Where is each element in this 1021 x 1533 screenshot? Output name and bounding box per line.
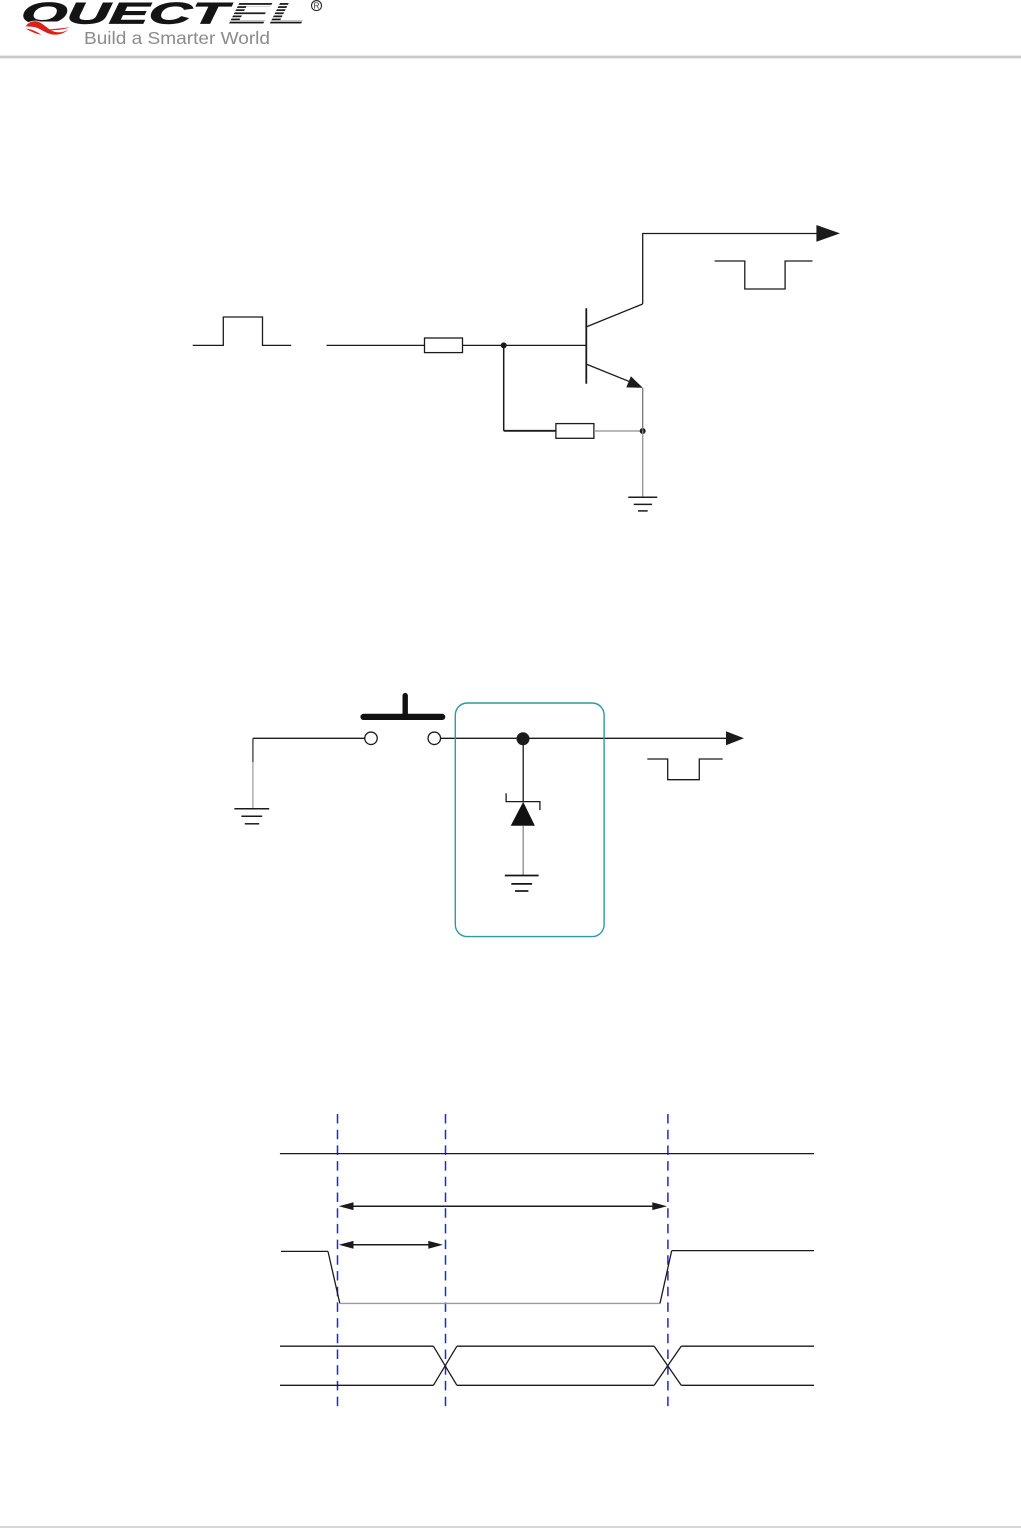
switch S1 left contact [365,732,378,745]
wire left horizontal [253,737,365,739]
wire left vertical [252,738,254,762]
svg-text:EL: EL [227,0,308,30]
zener D1 triangle [511,802,535,826]
dashed guide 2 [445,1114,447,1410]
input pulse waveform [193,317,292,345]
collector wire up and right [643,234,817,305]
arrow to PWRKEY 2 [726,731,744,745]
node emitter junction [640,428,646,434]
svg-text:Build a Smarter World: Build a Smarter World [84,28,270,48]
logo red swoosh [26,21,70,35]
arrow to PWRKEY [816,225,840,242]
transistor Q1 emitter arrowhead [626,376,643,388]
bus bottom line [280,1384,814,1386]
bus crossover 1 [433,1346,457,1385]
emitter wire down [642,388,644,431]
node TVS junction [517,732,530,745]
svg-text:R: R [314,2,320,11]
dashed guide 1 [337,1114,339,1410]
ground circuit 2 box [505,876,539,892]
logo registered mark [312,1,322,11]
TVS module box [455,703,604,937]
PWRKEY waveform high right [672,1250,814,1252]
bus crossover 2 [654,1346,681,1385]
ground stem zener [522,826,524,875]
PWRKEY waveform fall [328,1251,340,1303]
output pulse waveform [715,261,813,289]
long measure arrow [339,1202,667,1210]
VBAT line [280,1153,814,1155]
wire to R2 [504,430,556,432]
resistor R2 [556,424,594,439]
output pulse waveform 2 [647,759,722,780]
PWRKEY waveform rise [660,1251,672,1304]
switch S1 button bar [364,714,443,720]
footer rule [0,1526,1021,1528]
transistor Q1 collector [587,304,643,327]
ground circuit 1 [628,497,657,511]
switch S1 stem [403,696,408,714]
wire switch to arrow [441,737,727,739]
transistor Q1 base bar [585,308,587,384]
node base junction [501,342,507,348]
transistor Q1 emitter [587,364,631,382]
bus top line [280,1345,814,1347]
zener D1 cathode bar [506,793,540,810]
logo white patch under swoosh [23,21,62,37]
wire input to R1 [327,344,425,346]
wire R2 to emitter node [594,430,643,432]
header rule [0,56,1021,59]
dashed guide 3 [667,1114,669,1410]
short measure arrow [339,1241,443,1249]
ground circuit 2 left [234,809,269,824]
ground stem [642,431,644,497]
wire node to zener [522,745,524,802]
PWRKEY waveform high left [281,1250,328,1252]
wire node down [503,345,505,430]
wire R1 to base [463,344,587,346]
Quectel logo wordmark [20,0,309,30]
switch S1 right contact [428,732,441,745]
PWRKEY waveform low [340,1302,660,1304]
resistor R1 [425,338,463,353]
ground stem left [252,762,254,808]
